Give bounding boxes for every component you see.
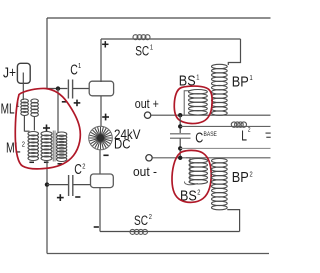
wire L2 branch line: [180, 125, 270, 127]
svg-text:2: 2: [149, 214, 152, 221]
label bottom minus: [94, 226, 99, 228]
label inner rail plus: [102, 41, 108, 47]
inductor SC2: [130, 229, 135, 234]
svg-text:C: C: [195, 129, 203, 146]
transformer winding BP2: [212, 159, 228, 163]
red circle BS2: [172, 150, 211, 202]
wire box1 top to inner rail: [100, 39, 102, 82]
wire box2 bottom: [99, 188, 101, 232]
wire top rail: [47, 17, 271, 19]
wire BP2 step: [227, 210, 239, 232]
wire lower branch line: [180, 147, 270, 149]
inductor ML2 coil C: [57, 132, 67, 136]
svg-text:out +: out +: [135, 96, 159, 111]
svg-text:out -: out -: [133, 164, 157, 179]
wire C2 right: [73, 184, 91, 186]
wire C1 right segment: [73, 88, 89, 90]
label source minus: [103, 154, 108, 156]
node Cbase lower junction: [178, 146, 182, 150]
label ML2B minus: [44, 161, 49, 163]
svg-text:BP: BP: [232, 75, 249, 91]
svg-text:2: 2: [250, 172, 253, 179]
red circle BS1: [174, 86, 212, 123]
block box1: [89, 81, 113, 96]
wire ML1B to ML2: [33, 117, 35, 131]
terminal out+: [144, 112, 150, 118]
svg-text:SC: SC: [135, 43, 149, 58]
wire out+ line: [151, 114, 271, 116]
capacitor C1: [67, 80, 69, 99]
label ML2 plus: [43, 125, 50, 132]
capacitor Cbase: [170, 133, 191, 135]
node out- junction: [178, 156, 182, 160]
transformer winding BP1: [212, 64, 228, 68]
block box2: [91, 174, 114, 188]
svg-text:ML: ML: [6, 140, 21, 157]
svg-text:C: C: [70, 62, 78, 79]
wire Cbase vertical lower: [179, 138, 181, 158]
core lines ML2: [52, 131, 54, 162]
label C2 plus: [57, 194, 64, 201]
svg-text:2: 2: [22, 142, 25, 149]
label C2 minus: [75, 196, 80, 198]
red circle ML windings: [15, 88, 80, 168]
label ML2A minus: [29, 161, 34, 163]
svg-text:SC: SC: [134, 213, 148, 228]
wire ML2 to bottom rail: [46, 161, 48, 254]
wire junction down to ML2 coil3: [57, 89, 59, 133]
wire ML1A to ML2: [23, 116, 25, 132]
transformer winding BS1: [184, 91, 190, 115]
transformer winding BS2: [186, 158, 190, 182]
terminal out-: [146, 155, 152, 161]
svg-text:BP: BP: [232, 170, 249, 186]
inductor ML1 coil A: [21, 99, 29, 103]
node Cbase upper junction: [178, 124, 182, 128]
wire source to box2: [99, 150, 101, 174]
label source plus: [102, 114, 109, 121]
inductor ML2 coil B: [41, 132, 52, 136]
wire C2 left: [47, 184, 68, 186]
wire box1 bottom to source: [100, 96, 102, 127]
svg-text:C: C: [74, 162, 82, 178]
svg-text:1: 1: [196, 75, 199, 82]
svg-text:ML: ML: [1, 101, 15, 118]
wire C1 left segment: [47, 88, 67, 90]
wire Cbase vertical upper: [179, 115, 181, 133]
capacitor right mini: [266, 132, 271, 134]
source 24kV DC starburst: [89, 126, 113, 150]
node out+ junction: [178, 113, 182, 117]
connector J+ box: [17, 63, 30, 83]
wire out- line: [152, 157, 270, 159]
inductor SC1: [133, 35, 138, 40]
svg-text:2: 2: [82, 164, 85, 171]
svg-text:DC: DC: [114, 136, 131, 152]
inductor ML1 coil B: [31, 99, 39, 103]
wire J+ to ML1: [22, 73, 24, 101]
svg-text:J+: J+: [3, 64, 16, 81]
wire outer left vertical: [46, 18, 48, 89]
node C1 junction: [56, 86, 60, 90]
svg-text:2: 2: [248, 128, 251, 134]
svg-text:1: 1: [78, 63, 81, 70]
svg-text:1: 1: [250, 75, 253, 82]
label ML2C minus: [58, 163, 63, 165]
svg-text:2: 2: [197, 190, 200, 197]
svg-text:L: L: [241, 128, 247, 145]
wire BP1 drop step: [228, 39, 240, 65]
inductor L2: [231, 122, 236, 127]
svg-text:BASE: BASE: [204, 131, 217, 138]
wire inner top rail: [101, 38, 241, 40]
wire SC2 rail: [100, 231, 240, 233]
wire bottom outer rail: [47, 253, 269, 255]
label C1 plus: [74, 100, 81, 107]
svg-text:1: 1: [150, 45, 153, 52]
node C2 junction: [45, 182, 49, 186]
label C1 minus: [62, 101, 67, 103]
inductor ML2 coil A: [28, 132, 39, 136]
capacitor C2: [68, 175, 70, 196]
